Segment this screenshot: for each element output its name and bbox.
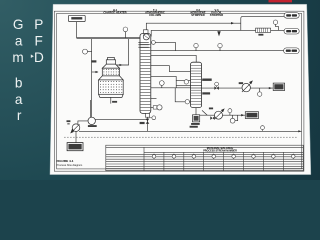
svg-text:b: b xyxy=(15,76,23,91)
svg-text:a: a xyxy=(15,92,23,107)
svg-text:FIGURE 4-1: FIGURE 4-1 xyxy=(57,159,74,163)
svg-text:F: F xyxy=(34,33,42,48)
svg-text:r: r xyxy=(17,108,22,123)
svg-text:D: D xyxy=(34,50,44,65)
svg-text:P: P xyxy=(34,17,43,32)
svg-text:Process flow diagram: Process flow diagram xyxy=(57,163,83,167)
svg-text:STRIPPER: STRIPPER xyxy=(191,13,204,17)
svg-text:a: a xyxy=(15,34,23,49)
svg-text:PROCESS STREAM NUMBER: PROCESS STREAM NUMBER xyxy=(203,150,237,153)
svg-text:m: m xyxy=(12,50,23,65)
svg-text:G: G xyxy=(13,17,24,32)
svg-text:STRIPPER: STRIPPER xyxy=(210,13,223,17)
svg-text:COLUMN: COLUMN xyxy=(149,13,161,17)
svg-text:CHARGE HEATER: CHARGE HEATER xyxy=(103,11,126,15)
